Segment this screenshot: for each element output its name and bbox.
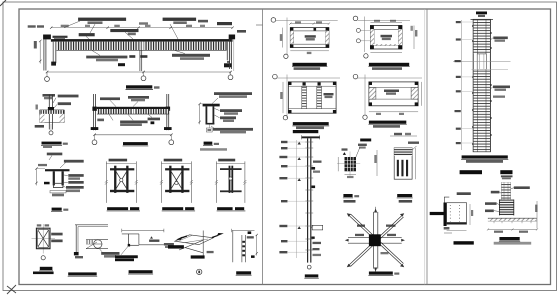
title C-C [40, 267, 53, 270]
level arrows [298, 142, 301, 229]
base slab [488, 217, 537, 219]
bold text left [168, 245, 184, 248]
step profile [128, 234, 130, 245]
bubble [283, 116, 287, 120]
diagonal members [349, 214, 404, 267]
horizontal top bar [110, 168, 134, 170]
corner fold mark top-left [0, 0, 6, 6]
column divider right [426, 9, 428, 285]
left end grey hatch strip [53, 42, 57, 64]
vertical double member [372, 212, 374, 269]
bottom dims [369, 111, 418, 113]
box [447, 203, 467, 225]
top cap label [476, 12, 487, 15]
right labels [51, 233, 62, 236]
left vertical dimension [39, 41, 41, 64]
inner rect [374, 30, 399, 46]
column body [473, 19, 490, 151]
title [236, 271, 251, 274]
small labels on members [355, 234, 364, 236]
outer rect [370, 26, 402, 50]
dim left [199, 104, 201, 124]
right dim of box [469, 204, 471, 225]
tie rungs upper [474, 20, 490, 54]
inner horizontals [369, 87, 418, 89]
inner horizontals [288, 85, 336, 87]
splice zone [477, 54, 486, 70]
bottom dark band [447, 222, 467, 224]
caret + label [150, 236, 153, 238]
top line with ticks [122, 230, 164, 232]
hatch strips [370, 30, 374, 46]
top line [106, 162, 136, 164]
top dim marks [37, 224, 42, 226]
right column [166, 94, 168, 130]
web right edge [213, 106, 215, 124]
text blobs below beam [86, 56, 127, 59]
center double bar [229, 166, 231, 193]
left dimension chain [461, 20, 463, 150]
grid line horizontal [276, 20, 338, 22]
bubble [363, 115, 367, 119]
top dim [290, 23, 329, 25]
dimension line above bubbles [47, 71, 231, 73]
top labels [214, 92, 252, 95]
divider tick [256, 24, 263, 26]
beam bottom [40, 122, 65, 124]
wall double line [307, 138, 309, 262]
grid bubbles [92, 140, 97, 145]
grid bubble 3 [228, 75, 233, 80]
top note [47, 153, 63, 156]
right side weld blobs [312, 167, 316, 170]
leader [356, 147, 360, 157]
dims [337, 157, 339, 171]
inner text [324, 93, 334, 95]
grid line vertical [286, 18, 288, 55]
bottom line [97, 113, 169, 115]
strip verticals [241, 235, 243, 262]
top hatched band [394, 148, 412, 156]
right labels [101, 252, 119, 255]
right labels [64, 160, 84, 163]
title [293, 122, 329, 125]
top dim [370, 21, 402, 23]
corner blocks [370, 25, 374, 29]
leader lines [64, 21, 178, 42]
horizontal double member [348, 236, 402, 238]
top small texts [501, 175, 513, 177]
dotted interior [449, 205, 451, 222]
base blobs [74, 252, 79, 255]
beam elevation title [126, 85, 152, 88]
rung ticks [305, 142, 313, 250]
brace triangle [179, 240, 203, 253]
title [369, 121, 406, 124]
top chord [97, 107, 169, 109]
thick vertical bar [444, 203, 447, 227]
left dim [282, 28, 284, 48]
column shaft [501, 182, 503, 204]
joint blocks [92, 107, 97, 111]
internal hatched bars [302, 86, 307, 109]
bold text bottom [191, 255, 205, 258]
bold label above [293, 130, 319, 133]
stray note above right [200, 148, 227, 151]
base bold marks [91, 127, 99, 130]
small left dim marks [36, 105, 38, 110]
right support column (black cap) [229, 35, 235, 40]
grid bubble 1 [45, 77, 50, 82]
right label [164, 243, 174, 246]
plate parallelogram [175, 235, 214, 245]
notes above [344, 200, 356, 203]
outer rect [290, 28, 329, 48]
grid bubble [271, 18, 276, 23]
labels below [97, 119, 104, 122]
top flange [203, 104, 220, 107]
horizontal bottom bar [110, 190, 134, 192]
bottom small box [206, 128, 212, 132]
corner blocks [288, 82, 291, 85]
grid line through splice [453, 61, 511, 63]
X diagonals [38, 229, 49, 247]
hatch band [97, 109, 169, 114]
diagonal hatch patches [40, 114, 45, 123]
M7 left dim [376, 150, 378, 176]
web bottom box [54, 183, 63, 187]
middle support column [139, 42, 141, 71]
top dim [390, 135, 417, 137]
column lines [48, 95, 50, 130]
title [293, 63, 327, 66]
web left edge [206, 106, 208, 124]
middle hatch gap [139, 42, 144, 51]
right end grey hatch strip [227, 42, 231, 61]
title [68, 272, 97, 275]
vertical bars [114, 166, 116, 193]
beam top chord [51, 39, 233, 42]
top note [457, 192, 471, 195]
title [499, 237, 519, 240]
circled number [197, 269, 202, 274]
title [343, 194, 352, 197]
web edges [53, 171, 55, 185]
tie rungs lower [474, 69, 490, 151]
hooks [242, 241, 245, 243]
title [42, 142, 62, 145]
title [369, 63, 409, 66]
right dim [415, 148, 417, 179]
base circle [307, 265, 311, 269]
detail bubble [94, 240, 102, 248]
top dimension line [51, 27, 233, 29]
top line [232, 230, 255, 232]
lower marks [50, 191, 66, 193]
center text [384, 90, 399, 93]
center gusset [369, 234, 381, 246]
labels above [100, 97, 120, 100]
grid bubble [49, 131, 53, 135]
corner blocks [290, 27, 293, 30]
bottom dim + bubble [370, 51, 402, 53]
outer rect [288, 82, 336, 113]
top flange band [45, 169, 70, 171]
column divider left [262, 9, 264, 285]
beam top line [40, 109, 65, 111]
left support column (black cap) [43, 35, 51, 40]
web bottom [206, 123, 215, 125]
level black blob [44, 182, 50, 185]
inner octagon [38, 229, 49, 247]
bold arrows [176, 237, 182, 240]
title A-A [204, 142, 213, 145]
bubble bottom-left [284, 54, 288, 58]
corner blocks [369, 82, 372, 85]
dimension line [95, 134, 172, 136]
hatched end columns [369, 88, 376, 100]
side bubbles [356, 28, 360, 32]
right side notes [313, 161, 322, 163]
title [454, 241, 474, 244]
wall lines [75, 225, 77, 252]
vertical member [202, 231, 204, 256]
top label [109, 159, 128, 162]
title [129, 270, 153, 273]
right notes [493, 37, 508, 40]
side boundary lines [105, 161, 107, 203]
incoming beam [86, 239, 108, 241]
center text [305, 35, 316, 38]
small label [207, 251, 214, 253]
center text [381, 35, 393, 38]
dim line [488, 229, 537, 231]
leader labels [43, 94, 56, 97]
top cap line [471, 18, 494, 20]
corner fold mark bottom-left X [7, 285, 16, 294]
grid bubble [353, 16, 358, 21]
section square [345, 157, 357, 171]
outer rect [369, 82, 418, 106]
title [369, 272, 393, 275]
right labels [220, 109, 242, 112]
vertical rebar lines [477, 19, 479, 54]
body [394, 148, 412, 179]
bottom vertical bars [397, 160, 399, 177]
dense lap band [499, 200, 513, 216]
joint black block [48, 107, 54, 111]
inner rect [294, 31, 326, 44]
right dim [256, 235, 258, 256]
leader notes [514, 186, 530, 189]
left column [93, 94, 95, 130]
bold label [360, 139, 371, 142]
bottom dim [447, 230, 467, 232]
wall hatch strips [290, 31, 293, 44]
left dimension chain [296, 140, 298, 258]
leader to note [121, 246, 128, 255]
grid bubble 2 [141, 76, 146, 81]
beam bottom line [53, 49, 230, 51]
header bold label [460, 170, 482, 174]
top slab lines [75, 224, 108, 226]
right side attachment box [312, 225, 323, 230]
right dim [421, 82, 423, 106]
label text blobs above beam [78, 18, 126, 21]
top arrow blob [343, 152, 346, 155]
left column lines below [43, 39, 45, 70]
diagonal [86, 242, 97, 249]
grid bubble [41, 256, 45, 260]
crosshair [349, 152, 351, 176]
title [305, 274, 319, 277]
title [123, 142, 148, 145]
bottom marks [444, 227, 450, 230]
title lines [462, 155, 508, 158]
right dim [413, 26, 415, 50]
header bold label [500, 170, 512, 174]
node dot [128, 244, 130, 247]
left dims [35, 169, 37, 186]
X diagonal [115, 170, 127, 189]
bold labels [248, 231, 252, 234]
star tips [374, 209, 377, 272]
left dim [282, 82, 284, 113]
square outline [36, 228, 50, 249]
side hook dots [472, 26, 492, 144]
title B-B [52, 208, 62, 211]
top flange [302, 136, 320, 138]
leader note [412, 146, 416, 150]
crosshair [42, 224, 44, 254]
left vertical [232, 231, 234, 263]
beam hatch band [40, 110, 65, 114]
beam web hatch [57, 42, 228, 51]
bottom dim [290, 50, 329, 52]
title [397, 194, 412, 197]
right vertical dim [536, 201, 538, 228]
step top [444, 197, 449, 203]
left bold text [430, 212, 444, 215]
title [107, 207, 128, 210]
